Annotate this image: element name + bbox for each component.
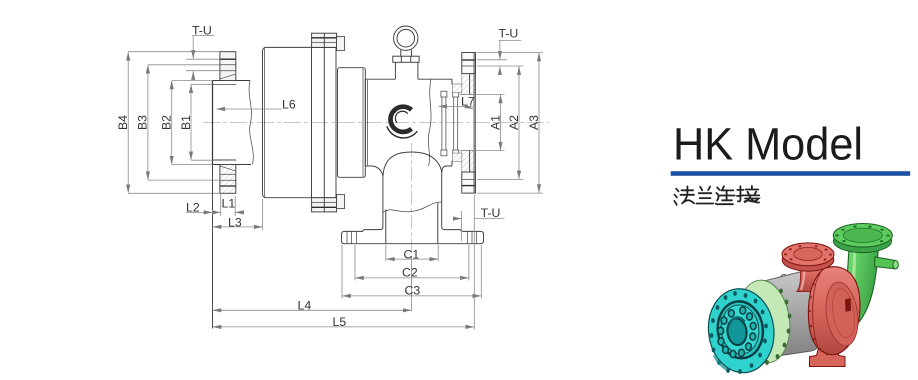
cyan flange disc: [704, 285, 779, 377]
dimension L2: [186, 201, 212, 215]
blue underline rule: [671, 171, 911, 176]
dimension B3: [136, 65, 220, 180]
main axis centerline: [203, 122, 549, 124]
dimension L1: [213, 194, 243, 217]
red pipe neck: [797, 259, 831, 292]
drum body L6: [263, 47, 312, 197]
L6 label: [217, 98, 296, 112]
green elbow tube: [833, 224, 898, 323]
C logo: [387, 107, 417, 138]
char jie: [737, 186, 759, 203]
svg-text:HK Model: HK Model: [673, 119, 863, 170]
svg-text:L6: L6: [282, 98, 296, 112]
svg-text:B1: B1: [179, 115, 193, 130]
svg-text:A3: A3: [527, 115, 541, 130]
lower pipe walls: [342, 173, 484, 244]
studs L7: [441, 91, 459, 156]
green nozzle: [875, 257, 896, 269]
svg-text:B3: B3: [136, 115, 150, 130]
L7 label: [439, 95, 475, 109]
svg-text:B4: B4: [116, 115, 130, 130]
dimension C3: [342, 245, 481, 299]
svg-text:L1: L1: [222, 197, 236, 211]
svg-text:T-U: T-U: [481, 206, 501, 220]
dimension A1: [460, 95, 505, 151]
dimension A2: [477, 66, 524, 179]
dimension B4: [116, 52, 220, 194]
hub screws: [718, 307, 756, 358]
middle flange top bolt: [312, 33, 345, 50]
bore: [726, 317, 748, 346]
left flange top bolt: [220, 52, 236, 81]
svg-text:B2: B2: [160, 115, 174, 130]
svg-text:C3: C3: [405, 284, 421, 298]
char lian: [716, 186, 735, 204]
left face vertical extension: [212, 165, 214, 329]
bolt thread extension lines left: [186, 59, 220, 70]
T-U label top left: [192, 24, 215, 80]
left flange bottom bolt: [220, 165, 236, 194]
Chinese subtitle 法兰连接 (drawn strokes): [674, 186, 759, 205]
T-U label top right: [477, 27, 521, 74]
dimension B2: [160, 81, 213, 165]
green top flange: [834, 229, 892, 252]
left flange hub: [213, 81, 254, 165]
svg-text:T-U: T-U: [499, 27, 519, 41]
dimension B1: [179, 84, 213, 160]
pipe axis centerline: [411, 143, 413, 256]
dimension A3: [477, 53, 543, 194]
middle flange plates: [312, 47, 337, 197]
svg-text:A1: A1: [488, 115, 502, 130]
char fa: [674, 186, 694, 204]
spacer cylinder: [338, 68, 366, 178]
red top flange: [782, 243, 834, 271]
T-U label bottom: [454, 206, 505, 241]
lower pipe dome: [383, 152, 442, 177]
dimension L3: [213, 199, 263, 230]
pale green rotor ring: [734, 277, 795, 366]
svg-text:A2: A2: [507, 115, 521, 130]
gray cylinder: [760, 270, 820, 358]
red foot: [810, 342, 846, 367]
lifting eye ring: [393, 26, 419, 79]
dimension C2: [355, 245, 469, 281]
char lan: [696, 187, 713, 204]
dimension C1: [386, 245, 438, 262]
dimension L5: [213, 195, 474, 330]
main housing body: [365, 79, 462, 176]
middle flange bottom bolt: [312, 195, 345, 212]
dimension L4: [213, 256, 412, 313]
right flange plates: [453, 53, 476, 194]
red housing: [808, 267, 862, 356]
svg-text:C2: C2: [402, 266, 418, 280]
svg-text:L3: L3: [228, 216, 242, 230]
